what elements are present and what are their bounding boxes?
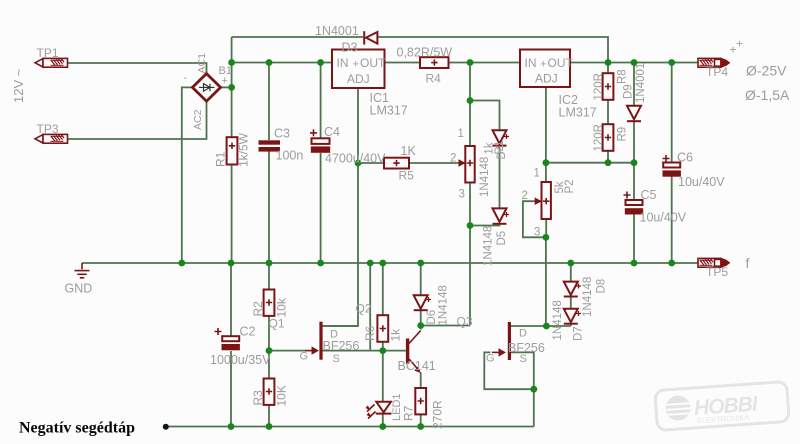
wire D7 D8 column from GND rail	[570, 263, 572, 282]
svg-text:+: +	[222, 75, 228, 87]
diode D8 1N4148	[564, 282, 578, 297]
svg-text:4700u/40V: 4700u/40V	[325, 152, 386, 166]
svg-text:AC1: AC1	[196, 53, 208, 74]
svg-text:R9: R9	[617, 127, 629, 142]
wire C2 column top	[230, 263, 232, 336]
svg-text:BC141: BC141	[398, 359, 436, 373]
svg-text:P2: P2	[564, 179, 576, 193]
wire bridge minus to GND rail	[182, 87, 194, 263]
svg-text:1K: 1K	[401, 144, 417, 158]
wire TP5 lead	[672, 262, 698, 264]
svg-text:R1: R1	[214, 151, 228, 167]
wire negative auxiliary rail	[166, 426, 534, 428]
resistor R3	[264, 379, 275, 405]
wire Q3 drain line to D7 bottom	[511, 325, 571, 327]
svg-text:C4: C4	[324, 125, 340, 139]
test pin TP1	[35, 58, 68, 67]
svg-text:LM317: LM317	[370, 104, 408, 118]
wire C3 column	[268, 63, 270, 141]
svg-text:D: D	[519, 328, 527, 340]
wire Q3 gate loop	[484, 352, 534, 389]
wire riser B1+ up to top bypass and down to R1	[231, 37, 233, 137]
svg-text:+: +	[540, 59, 546, 71]
regulator IC2 LM317	[520, 50, 570, 88]
wire Q2 drain stub	[323, 325, 359, 327]
wire bridge plus to node	[220, 86, 232, 88]
svg-text:1k/5W: 1k/5W	[237, 132, 251, 167]
wire R4 to IC2 IN	[449, 62, 521, 64]
svg-text:+: +	[736, 37, 743, 51]
bridge rectifier B1	[192, 74, 220, 102]
wire TP1 to bridge AC1	[67, 63, 207, 75]
potentiometer P2	[542, 182, 551, 219]
svg-text:10u/40V: 10u/40V	[678, 175, 725, 189]
svg-text:1N4148: 1N4148	[483, 226, 495, 266]
svg-text:Q3: Q3	[457, 315, 473, 329]
wire TP3 to bridge AC2	[67, 101, 207, 139]
wire R8 R9 column	[607, 63, 609, 74]
diode D3 1N4001	[364, 31, 377, 44]
resistor R9	[603, 124, 614, 151]
wire Q2 source riser to GND rail	[369, 263, 371, 351]
svg-text:1N4148: 1N4148	[438, 285, 450, 325]
wire BC141 collector stub	[420, 326, 422, 330]
wire IC2 OUT to TP4	[570, 62, 698, 64]
svg-text:0,82R/5W: 0,82R/5W	[397, 46, 453, 60]
resistor R1	[227, 137, 238, 164]
svg-text:1N4148: 1N4148	[479, 157, 491, 197]
svg-text:R4: R4	[426, 72, 442, 86]
resistor R8	[603, 73, 614, 100]
wire R2 column from GND rail	[268, 263, 270, 290]
svg-text:1000u/35V: 1000u/35V	[210, 353, 271, 367]
wire C5 column	[633, 163, 635, 200]
wire main positive line to IC1 IN	[232, 62, 332, 64]
wire R1 bottom to GND rail	[231, 165, 233, 264]
svg-text:TP4: TP4	[706, 65, 728, 79]
wire R2 R3 junction and gate line	[268, 316, 270, 379]
svg-text:D8: D8	[596, 279, 608, 294]
svg-text:Negatív segédtáp: Negatív segédtáp	[19, 420, 135, 437]
wire P1 top column	[469, 63, 471, 147]
svg-text:IN: IN	[525, 56, 537, 70]
svg-text:+: +	[353, 59, 359, 71]
test pin TP5	[698, 258, 729, 267]
wire LED1 column	[382, 351, 384, 402]
svg-text:D4: D4	[496, 144, 508, 159]
resistor R5	[384, 158, 409, 169]
svg-text:Q1: Q1	[269, 317, 285, 331]
wire D6 node to P1 column	[421, 325, 470, 327]
jfet Q3 BF256	[492, 322, 511, 360]
wire ADJ line to R9 bottom and D9 bottom	[546, 162, 634, 164]
capacitor C6	[663, 163, 680, 168]
svg-text:R8: R8	[617, 69, 629, 84]
diode D6 1N4148	[414, 295, 428, 310]
resistor R6	[377, 315, 388, 342]
wire D9 column	[633, 63, 635, 106]
svg-text:3: 3	[459, 189, 465, 201]
wire Q2 source stub to GND riser and R6 node	[323, 350, 383, 352]
wire R3 bottom to negative rail	[268, 405, 270, 427]
svg-text:TP1: TP1	[37, 46, 59, 60]
svg-text:ADJ: ADJ	[347, 72, 370, 86]
wire P2 bottom lead	[545, 219, 547, 237]
wire C2 column bottom	[230, 351, 232, 427]
wire BC141 base	[383, 350, 406, 352]
capacitor C2	[222, 336, 239, 341]
svg-text:f: f	[746, 255, 750, 271]
wire D6 column from GND rail	[420, 263, 422, 295]
capacitor C4	[312, 138, 330, 144]
test pin TP4	[698, 58, 729, 67]
wire Q2 gate from R2 R3 junction	[269, 350, 306, 352]
ground symbol GND	[75, 263, 90, 278]
svg-text:1N4001: 1N4001	[635, 63, 647, 103]
wire R6 column	[382, 263, 384, 315]
wire Q3 source stub and loop	[511, 352, 534, 389]
svg-text:AC2: AC2	[192, 109, 204, 130]
svg-text:LM317: LM317	[559, 106, 597, 120]
wire R7 bottom to negative rail	[420, 414, 422, 427]
svg-text:BF256: BF256	[508, 341, 545, 355]
capacitor C5	[626, 200, 643, 205]
wire IC1 ADJ column down to Q2 drain	[323, 88, 358, 326]
svg-text:-: -	[184, 72, 188, 84]
wire C6 column	[671, 63, 673, 163]
wire top bypass rail right of D3	[378, 37, 609, 63]
watermark logo HOBBI	[655, 381, 789, 430]
svg-text:1k: 1k	[389, 328, 403, 342]
diode D4 1N4148	[493, 130, 507, 145]
wire P2 wiper loop	[523, 201, 546, 237]
resistor R7	[415, 388, 426, 414]
wire Q3 node to negative rail	[533, 389, 535, 426]
svg-text:C3: C3	[274, 127, 290, 141]
svg-text:1: 1	[458, 128, 464, 140]
regulator IC1 LM317	[332, 50, 385, 89]
svg-text:OUT: OUT	[360, 56, 386, 70]
jfet Q2 BF256	[305, 322, 323, 360]
svg-text:10k: 10k	[275, 297, 289, 317]
wire IC2 ADJ column	[545, 87, 547, 163]
wire R5 left lead	[358, 162, 384, 164]
svg-text:D7: D7	[573, 326, 585, 341]
svg-text:D9: D9	[623, 84, 635, 99]
svg-text:GND: GND	[65, 282, 93, 296]
test pin TP3	[35, 134, 68, 143]
svg-text:ADJ: ADJ	[535, 72, 558, 86]
svg-text:100n: 100n	[276, 149, 304, 163]
wire top bypass rail	[232, 36, 363, 38]
wire BC141 emitter to R7	[420, 373, 422, 389]
svg-text:270R: 270R	[431, 400, 445, 429]
diode D7 1N4148	[564, 309, 578, 324]
svg-text:1N4001: 1N4001	[315, 24, 359, 38]
wire P2 top lead	[545, 163, 547, 182]
svg-text:S: S	[333, 353, 340, 365]
wire D4 D5 branch	[470, 101, 500, 131]
resistor R4	[420, 57, 449, 68]
svg-text:1N4148: 1N4148	[552, 300, 564, 340]
svg-text:G: G	[300, 351, 309, 363]
svg-text:R3: R3	[251, 390, 265, 406]
svg-text:D3: D3	[342, 41, 358, 55]
resistor R2	[264, 290, 275, 316]
svg-text:IN: IN	[337, 56, 349, 70]
svg-text:1N4148: 1N4148	[582, 277, 594, 317]
svg-text:10K: 10K	[275, 385, 289, 406]
led LED1	[366, 402, 392, 419]
svg-text:12V ~: 12V ~	[11, 68, 26, 103]
wire GND rail	[82, 262, 672, 264]
svg-text:2: 2	[522, 190, 528, 202]
wire P1 bottom column crossing GND rail down to D6 line	[469, 183, 471, 326]
svg-text:D6: D6	[426, 310, 438, 325]
svg-text:G: G	[486, 353, 495, 365]
svg-text:Ø-25V: Ø-25V	[746, 63, 787, 79]
wire C4 column	[320, 63, 322, 139]
wire P2 node down to Q3 drain line crossing GND rail	[545, 237, 547, 326]
wire R5 right lead to P1 wiper	[409, 162, 465, 164]
svg-text:C6: C6	[677, 151, 693, 165]
svg-text:R7: R7	[402, 405, 416, 421]
junction node dots	[178, 59, 675, 430]
svg-text:TP3: TP3	[37, 122, 59, 136]
potentiometer P1	[465, 146, 474, 183]
svg-text:R5: R5	[399, 169, 415, 183]
svg-text:C5: C5	[641, 188, 657, 202]
svg-text:D5: D5	[496, 231, 508, 246]
svg-text:1: 1	[534, 168, 540, 180]
svg-text:120R: 120R	[593, 124, 605, 152]
svg-text:C2: C2	[240, 325, 256, 339]
svg-text:Ø-1,5A: Ø-1,5A	[745, 87, 790, 103]
svg-text:OUT: OUT	[548, 56, 574, 70]
svg-text:Q2: Q2	[356, 302, 372, 316]
diode D5 1N4148	[493, 208, 507, 223]
origin crosses for diode labels	[426, 134, 581, 316]
diode D9 1N4001	[627, 106, 641, 121]
svg-text:R2: R2	[251, 301, 265, 317]
svg-text:2: 2	[450, 153, 456, 165]
svg-text:TP5: TP5	[706, 265, 728, 279]
svg-text:BF256: BF256	[323, 339, 360, 353]
capacitor C3	[259, 140, 281, 144]
negative rail start dot	[163, 424, 169, 430]
npn transistor BC141	[406, 331, 421, 374]
svg-text:3: 3	[534, 227, 540, 239]
svg-text:R6: R6	[363, 325, 377, 341]
wire IC1 OUT to R4	[385, 62, 421, 64]
svg-text:120R: 120R	[593, 73, 605, 101]
svg-text:10u/40V: 10u/40V	[640, 211, 687, 225]
